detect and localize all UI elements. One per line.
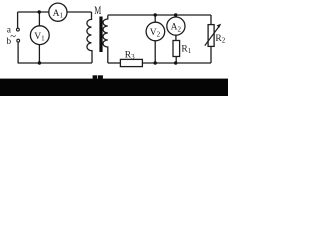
wire: left loop bottom wire: [18, 62, 92, 64]
wire: V1 bottom stub: [38, 45, 40, 63]
transformer primary coil (left): [87, 12, 92, 63]
rheostat R2 arrow: [205, 25, 220, 45]
rheostat R2: [208, 25, 214, 47]
voltmeter V2: [146, 22, 165, 41]
wire: right loop bottom wire left segment: [108, 62, 121, 64]
terminal b: [17, 39, 20, 42]
ammeter A2: [167, 17, 185, 35]
wire: right loop bottom wire right segment: [142, 62, 211, 64]
censor band: [0, 79, 228, 96]
wire: V1 top stub: [38, 12, 40, 26]
node: junction dot bottom wire / R1: [174, 61, 177, 64]
svg-text:R1: R1: [181, 45, 191, 56]
svg-text:R2: R2: [215, 34, 225, 45]
caption glyph top (partially hidden character): [93, 75, 97, 79]
wire: A2 to R1 stub: [175, 35, 177, 40]
wire: left vertical from top corner to terminal a: [17, 12, 19, 28]
wire: right loop top wire: [108, 14, 211, 16]
wire: V2 top stub: [154, 15, 156, 22]
wire: left vertical from terminal b to bottom wire: [17, 42, 19, 63]
svg-text:R3: R3: [125, 51, 135, 62]
terminal a: [17, 28, 20, 31]
wire: A2 top stub: [175, 15, 177, 17]
wire: V2 bottom stub: [154, 41, 156, 63]
node: junction dot bottom wire / V2: [154, 61, 157, 64]
wire: R1 bottom stub: [175, 57, 177, 64]
transformer secondary coil (right): [103, 15, 108, 63]
voltmeter V1: [30, 26, 49, 45]
node: junction dot top wire / V1: [38, 10, 41, 13]
svg-text:M: M: [94, 5, 101, 17]
wire: left loop top wire: [18, 11, 92, 13]
resistor R1: [173, 41, 180, 57]
node: junction dot top wire / V2: [154, 13, 157, 16]
resistor R3: [120, 59, 142, 66]
transformer core: [99, 17, 102, 53]
wire: right vertical top (to R2): [210, 15, 212, 25]
node: junction dot bottom wire / V1: [38, 61, 41, 64]
ammeter A1: [49, 3, 67, 21]
svg-text:b: b: [6, 37, 11, 47]
wire: right vertical bottom (R2 to bottom wire): [210, 46, 212, 63]
node: junction dot top wire / A2: [174, 13, 177, 16]
